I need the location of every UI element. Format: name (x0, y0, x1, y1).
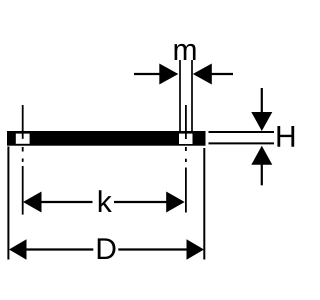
extension line m left (179, 60, 181, 132)
extension line D left (7, 147, 9, 260)
label k (99, 190, 112, 212)
dimension k line and arrows (23, 192, 185, 213)
extension line H bottom (209, 142, 275, 144)
center line right hole dash-dot (below bar) (185, 147, 187, 213)
dimension D line and arrows (9, 239, 204, 259)
label m (175, 44, 196, 60)
center line right hole (above bar) (185, 105, 187, 139)
flange plate (cross-section bar) (7, 131, 206, 146)
bolt hole left (white notch) (16, 134, 30, 144)
extension line H top (209, 131, 275, 133)
center line left hole (above bar) (22, 105, 24, 139)
label H (277, 126, 294, 147)
dimension H arrows (251, 88, 272, 185)
dimension m arrows (134, 64, 233, 85)
extension line D right (203, 148, 205, 260)
center line left hole dash-dot (below bar) (22, 147, 24, 215)
extension line m right (191, 60, 193, 132)
bolt hole right (white notch) (179, 134, 193, 144)
label D (98, 238, 116, 259)
